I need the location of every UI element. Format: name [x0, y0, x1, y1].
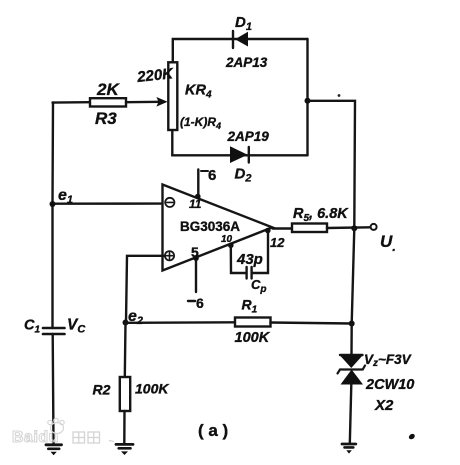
label 6 of +6	[208, 167, 216, 184]
label pin 10	[221, 234, 233, 245]
svg-text:6: 6	[208, 167, 216, 184]
svg-text:C1: C1	[24, 318, 40, 336]
node pin10 on lower edge	[228, 243, 234, 249]
svg-text:Cp: Cp	[251, 277, 267, 295]
label 100K for R1	[235, 330, 271, 346]
label pin 5	[191, 244, 199, 260]
svg-text:D1: D1	[235, 14, 252, 33]
svg-text:12: 12	[270, 235, 285, 250]
svg-text:e2: e2	[128, 308, 143, 327]
label R3	[95, 109, 117, 128]
svg-text:U.: U.	[380, 232, 396, 254]
wire pot top lead and loop top	[173, 39, 308, 62]
resistor R5	[292, 224, 327, 233]
wire pot bottom lead and loop bottom	[172, 131, 307, 156]
output terminal circle	[371, 224, 377, 230]
label Vc	[67, 317, 86, 336]
ink speck bottom right	[408, 433, 416, 441]
wire +6 supply pin	[195, 170, 201, 200]
wire zener to ground	[350, 385, 352, 444]
wire left vertical rail	[51, 103, 54, 329]
svg-text:2K: 2K	[96, 80, 120, 99]
svg-text:e1: e1	[58, 187, 73, 206]
wire R3 to wiper arrow	[126, 97, 168, 107]
label e2	[128, 308, 143, 327]
label 2CW10	[365, 377, 414, 393]
label R2	[93, 382, 111, 398]
label 2K for R3	[96, 80, 120, 99]
svg-text:Vz~F3V: Vz~F3V	[364, 352, 412, 369]
wire op-amp output to R5	[273, 227, 293, 229]
wire right rail down to R1 node	[352, 229, 355, 324]
label BG3036A	[180, 219, 240, 234]
label 43p	[236, 251, 263, 268]
node pin12 output	[265, 228, 271, 234]
svg-text:X2: X2	[374, 397, 394, 414]
op-amp inverting input circle	[165, 198, 174, 207]
svg-text:11: 11	[189, 197, 202, 211]
label X2	[374, 397, 394, 414]
svg-text:2AP19: 2AP19	[227, 129, 270, 144]
wire e2 to R1	[126, 321, 236, 324]
diode D2	[230, 146, 249, 163]
wire e2 down to R2	[124, 323, 127, 377]
op-amp non-inverting input circle	[165, 251, 174, 260]
capacitor Cp plates	[247, 267, 252, 279]
diode D1	[233, 31, 248, 48]
label C1	[24, 318, 40, 336]
wire from left rail to R3	[53, 101, 91, 104]
wire junction to right rail	[308, 101, 356, 229]
label e1	[58, 187, 73, 206]
label (1-K)R4	[180, 115, 221, 131]
label 2AP13	[225, 55, 268, 70]
node R1 right junction	[349, 321, 355, 327]
label Vz~F3V	[364, 352, 412, 369]
label 6 of -6	[196, 295, 204, 311]
svg-text:6: 6	[196, 295, 204, 311]
svg-text:VC: VC	[67, 317, 86, 336]
label Uo	[380, 232, 396, 254]
wire non-inverting input to e2	[126, 256, 165, 322]
label KR4	[185, 83, 212, 101]
wire left rail below C1 to ground	[52, 334, 55, 445]
ink speck above junction wire	[338, 94, 341, 97]
wire right rail R1 node to zener	[350, 324, 353, 355]
resistor R3	[90, 98, 126, 106]
op-amp U1 BG3036A triangle	[163, 185, 273, 271]
wire R2 to ground	[123, 411, 126, 444]
wire R1 to right rail	[271, 323, 352, 324]
minus bar of -6 label	[188, 300, 195, 302]
ground left (C1)	[46, 445, 62, 455]
label Cp	[251, 277, 267, 295]
svg-text:R3: R3	[95, 109, 117, 128]
wire -6 supply pin	[193, 255, 199, 292]
node e2	[123, 320, 129, 326]
wire R5 to output terminal	[327, 226, 370, 229]
ground middle (R2)	[116, 444, 133, 455]
zener diode pair VD 2CW10 x2	[338, 355, 366, 385]
svg-text:R1: R1	[242, 297, 258, 316]
svg-text:D2: D2	[235, 166, 252, 185]
resistor R1	[235, 318, 271, 327]
node e1	[50, 201, 56, 207]
svg-text:43p: 43p	[236, 251, 263, 268]
svg-text:100K: 100K	[235, 330, 271, 346]
potentiometer KR4	[168, 62, 177, 130]
svg-text:2AP13: 2AP13	[225, 55, 268, 70]
svg-text:5: 5	[191, 244, 199, 260]
label R1	[242, 297, 258, 316]
svg-text:R2: R2	[93, 382, 111, 398]
label 2AP9	[227, 129, 270, 144]
label 220K for pot	[135, 65, 175, 86]
svg-text:2CW10: 2CW10	[365, 377, 414, 393]
node loop-right junction	[305, 98, 311, 104]
label 100K for R2	[135, 381, 169, 397]
label (a)	[198, 421, 228, 440]
svg-text:R5, 6.8K: R5, 6.8K	[293, 206, 349, 224]
svg-text:10: 10	[221, 234, 233, 245]
label pin 12	[270, 235, 285, 250]
ground right (zener)	[342, 444, 356, 454]
label R5 6.8K	[293, 206, 349, 224]
svg-text:(1-K)R4: (1-K)R4	[180, 115, 221, 131]
label D2	[235, 166, 252, 185]
plus crossbar of +6 label	[201, 170, 208, 172]
svg-text:100K: 100K	[135, 381, 169, 397]
svg-text:BG3036A: BG3036A	[180, 219, 240, 234]
node output junction	[351, 225, 357, 231]
wire e1 horizontal to inverting input	[53, 202, 166, 204]
capacitor C1 plates	[43, 328, 65, 334]
svg-text:( a ): ( a )	[198, 421, 228, 440]
wire loop right side	[306, 39, 308, 155]
svg-text:KR4: KR4	[185, 83, 212, 101]
label D1	[235, 14, 252, 33]
resistor R2	[120, 377, 130, 411]
capacitor Cp branch wires	[231, 231, 268, 273]
label pin 11	[189, 197, 202, 211]
watermark Baidu baike	[12, 418, 114, 446]
